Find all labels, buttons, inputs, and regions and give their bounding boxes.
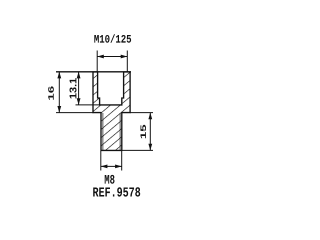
- arrow right of M8 dim: [115, 165, 122, 169]
- part body cross-section (hatched material): upper sleeve + lower stud minus bore: [93, 72, 130, 150]
- label 16 (rotated): [48, 86, 54, 99]
- wire: bore bottom extension line for 13.1: [76, 104, 100, 106]
- arrow left of M10 dim: [97, 55, 104, 59]
- thread minor line right on stud: [119, 113, 121, 150]
- M10/125 dimension extension line left: [96, 51, 98, 72]
- label M8: [105, 175, 115, 184]
- thread minor line left on stud: [102, 113, 104, 150]
- arrow top of 13.1 dim: [77, 72, 81, 79]
- 15 dimension line: [149, 113, 151, 151]
- wire: stud bottom right extension for 15 dim: [122, 149, 153, 151]
- label M10/125: [94, 34, 131, 42]
- arrow bottom of 16 dim: [57, 106, 61, 113]
- M8 dimension line: [101, 165, 122, 167]
- M8 extension line right: [121, 151, 123, 171]
- arrow top of 16 dim: [57, 72, 61, 79]
- wire: bottom of sleeve + left extension line: [56, 112, 94, 114]
- label 15 (rotated): [140, 125, 146, 138]
- wire: right extension at sleeve bottom for 15 dim: [130, 112, 153, 114]
- 16 dimension line: [58, 72, 60, 113]
- M10/125 dimension extension line right: [126, 51, 128, 72]
- M8 extension line left: [100, 151, 102, 171]
- arrow bottom of 15 dim: [148, 144, 152, 151]
- label 13.1 (rotated): [70, 78, 77, 98]
- arrow right of M10 dim: [121, 55, 128, 59]
- M10/125 dimension line: [97, 56, 127, 58]
- wire: top face + left extension line for 16/13.1 dims: [56, 71, 131, 73]
- arrow bottom of 13.1 dim: [77, 98, 81, 105]
- arrow top of 15 dim: [148, 113, 152, 120]
- label REF.9578: [93, 187, 140, 196]
- arrow left of M8 dim: [101, 165, 108, 169]
- 13.1 dimension line: [78, 72, 80, 105]
